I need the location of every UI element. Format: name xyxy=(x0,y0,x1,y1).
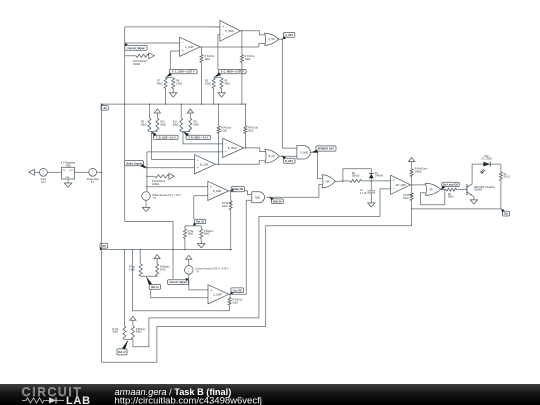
svg-text:R Top: R Top xyxy=(188,231,195,233)
svg-text:Curr OK: Curr OK xyxy=(233,290,242,292)
wire R7 to +5V rail xyxy=(165,89,167,105)
wire RefL2 bottom tie xyxy=(141,275,158,277)
svg-text:+: + xyxy=(182,49,184,53)
svg-text:OR: OR xyxy=(429,188,433,191)
net label AND OK xyxy=(271,199,283,204)
wire V_B_LOW to B_LOW - input xyxy=(152,132,195,160)
wire C_HIGH out to C_OK input a xyxy=(240,31,264,35)
OR gate B_OK xyxy=(265,150,279,164)
svg-text:C_HIGH: C_HIGH xyxy=(225,30,234,33)
svg-text:R12: R12 xyxy=(193,122,198,124)
wire B_CMP out to AND input a xyxy=(229,191,252,195)
net label V_C_HIGH xyxy=(218,69,246,73)
node flag right (brake pulldown) xyxy=(169,173,175,179)
svg-text:Brake_Signal: Brake_Signal xyxy=(126,162,141,165)
wire LED to R1 xyxy=(490,163,501,165)
ground (C divider2) xyxy=(218,93,225,97)
junction rail1 x=218.6 xyxy=(218,103,220,105)
wire V_C_LOW node riser xyxy=(169,51,171,69)
wire power rail to +5V bus xyxy=(97,171,102,173)
svg-text:GND: GND xyxy=(65,177,70,179)
resistor R Top 4.8k (RefL2) xyxy=(139,264,142,277)
svg-text:10kΩ: 10kΩ xyxy=(205,59,211,61)
svg-text:+: + xyxy=(222,25,224,29)
wire C_HIGH - stub xyxy=(218,34,220,36)
svg-text:8.2kΩ: 8.2kΩ xyxy=(176,83,182,85)
svg-text:Set Latch OK: Set Latch OK xyxy=(443,184,458,187)
junction B_OK out xyxy=(281,155,283,157)
wire brake sensor riser x=146.9 xyxy=(146,152,148,192)
junction C_HIGH out xyxy=(241,30,243,32)
svg-text:−: − xyxy=(210,296,212,300)
op-amp C_CMP comparator xyxy=(208,285,229,304)
net label Ref L2 xyxy=(149,284,160,289)
junction B_CMP out xyxy=(230,190,232,192)
svg-text:100kΩ: 100kΩ xyxy=(152,183,159,186)
svg-text:Current Sensor 0.25 V - 4.75 V: Current Sensor 0.25 V - 4.75 V xyxy=(196,268,229,271)
junction C_LOW out/pullup xyxy=(201,46,203,48)
svg-text:R Pull Up: R Pull Up xyxy=(205,56,215,58)
svg-text:90kΩ: 90kΩ xyxy=(225,83,231,85)
svg-text:Ref L2: Ref L2 xyxy=(151,286,159,289)
svg-text:+: + xyxy=(210,289,212,293)
svg-text:R Bottom: R Bottom xyxy=(160,266,170,269)
junction rail1 x=241.9 xyxy=(241,103,243,105)
ground (Q1 emitter) xyxy=(470,200,477,204)
resistor R9 90k (V_B_LOW) xyxy=(148,118,151,131)
wire to C_LOW - input xyxy=(125,42,180,44)
wire C_CMP out up to AND input b xyxy=(229,200,252,294)
resistor R Pull Up 10k (RC) xyxy=(410,193,413,201)
svg-text:RC_CMP: RC_CMP xyxy=(396,184,407,187)
op-amp B_HIGH comparator xyxy=(223,138,244,157)
LED D2 xyxy=(483,162,490,167)
svg-text:2N3904: 2N3904 xyxy=(474,190,483,192)
svg-text:B_OK?: B_OK? xyxy=(285,160,294,163)
net label Brake OK xyxy=(231,187,244,192)
wire rail to B divider1 xyxy=(148,104,150,118)
wire brake signal to B_CMP + input xyxy=(147,186,208,188)
node flag right (current pulldown) xyxy=(149,53,155,59)
svg-text:Ref L3: Ref L3 xyxy=(118,351,126,354)
net label +5V (rail1) xyxy=(101,106,108,111)
wire arrow to R Bottom (RefL2) xyxy=(156,260,158,264)
svg-text:C_LOW: C_LOW xyxy=(185,46,194,49)
ground (C1) xyxy=(368,203,375,207)
junction rail2 x=124.4 xyxy=(124,249,126,251)
resistor R Bottom 57k (RefL2) xyxy=(156,264,159,277)
resistor R Top 90k (RefU1) xyxy=(183,229,186,239)
wire pullup to B_LOW out xyxy=(218,134,220,165)
wire pullup to B_HIGH out xyxy=(244,134,246,148)
svg-text:R Bottom: R Bottom xyxy=(204,230,214,233)
wire C_HIGH out down (crosses y=47) xyxy=(241,31,243,55)
svg-text:90kΩ: 90kΩ xyxy=(157,83,163,85)
wire regulator GND xyxy=(67,179,69,183)
svg-text:R Bottom: R Bottom xyxy=(136,328,146,331)
transistor Q1 NPN 2N3904 xyxy=(466,184,468,195)
svg-text:Current_Signal: Current_Signal xyxy=(169,281,186,284)
resistor R Pull Up 10k (C_CMP) xyxy=(228,298,231,306)
svg-text:R Pull Up: R Pull Up xyxy=(221,127,231,129)
junction B_LOW out xyxy=(218,164,220,166)
svg-text:4.7 µF: 4.7 µF xyxy=(360,193,367,195)
wire to brake pulldown xyxy=(147,175,155,177)
wire to R pull down (current) xyxy=(125,55,136,57)
svg-text:90kΩ: 90kΩ xyxy=(141,124,147,126)
net label +5V (rail2) xyxy=(100,243,108,248)
resistor R Pull Up 10k (C_HIGH) xyxy=(240,55,243,63)
svg-text:8.2kΩ: 8.2kΩ xyxy=(205,83,211,85)
resistor R5 8.2k (V_C_HIGH) xyxy=(212,78,215,89)
resistor R Pull Up 10k (B_HIGH) xyxy=(244,126,247,134)
wire SENSOR_OK to OR input a xyxy=(318,152,322,178)
junction OR out / R3 xyxy=(342,180,344,182)
wire to R3 xyxy=(343,180,350,182)
resistor R1 500 xyxy=(499,172,502,181)
junction SENSOR_OK xyxy=(317,152,319,154)
wire C_CMP out to pullup xyxy=(229,294,231,297)
wire node to C1 xyxy=(370,181,372,191)
wire C divider1 top tie xyxy=(166,76,174,78)
resistor R Pull Up 10k (B_LOW) xyxy=(217,126,220,134)
junction rail2 x=173.0 xyxy=(172,249,174,251)
wire R pulldown to RC out xyxy=(411,177,413,185)
wire pullup to rail xyxy=(241,63,243,105)
wire B_CMP pullup to rail2 xyxy=(230,210,232,250)
AND gate S_AND xyxy=(297,146,310,159)
capacitor C1 4.7uF xyxy=(367,190,375,192)
wire V_B_HIGH to B_HIGH - input xyxy=(183,132,223,144)
svg-text:Out: Out xyxy=(504,213,508,216)
resistor R Pull Down (current) 100k xyxy=(136,54,149,57)
resistor R Top 90k (RefL3) xyxy=(123,326,126,339)
svg-text:C_OK: C_OK xyxy=(268,38,275,41)
resistor R Bottom 90k (RefU1) xyxy=(200,229,203,239)
wire emitter to ground xyxy=(472,195,474,200)
svg-text:C_OK?: C_OK? xyxy=(285,34,294,37)
junction rail1 x=165.6 xyxy=(165,103,167,105)
op-amp RC_CMP comparator xyxy=(391,175,411,194)
wire B_OK out to S_AND input b xyxy=(279,155,297,157)
regulator U2 7805 box xyxy=(62,167,75,179)
svg-text:B_CMP: B_CMP xyxy=(213,190,222,193)
source Current Sensor 0.25V-4.75V xyxy=(185,266,194,275)
wire stub xyxy=(165,76,167,79)
junction rail1 x=149.4 xyxy=(149,103,151,105)
wire top to C_HIGH + input y=26.9 xyxy=(125,26,220,28)
net label V_B_LOW xyxy=(154,135,179,139)
svg-text:+5V: +5V xyxy=(102,107,107,110)
net label Brake_Signal xyxy=(125,161,144,166)
junction rail2 x=184.9 xyxy=(184,249,186,251)
svg-text:L7L_3V5E: L7L_3V5E xyxy=(481,159,492,161)
wire C_LOW output line y=47 xyxy=(200,46,259,48)
wire C_OK down to S_AND input a xyxy=(282,39,297,148)
wire C divider2 top tie xyxy=(214,76,222,78)
OR gate (sensor/and combine) xyxy=(322,175,335,188)
wire latch OR output xyxy=(441,189,446,191)
svg-text:90kΩ: 90kΩ xyxy=(113,332,119,334)
junction RC pullup/output line xyxy=(411,208,413,210)
svg-text:R Pull Up: R Pull Up xyxy=(403,195,413,197)
svg-text:V_C_HIGH = 0.757 V: V_C_HIGH = 0.757 V xyxy=(221,71,244,74)
wire brake signal to B_HIGH + input xyxy=(147,151,223,153)
svg-text:Brake OK: Brake OK xyxy=(233,189,244,191)
wire RefU1 to B_CMP - input xyxy=(194,195,208,197)
svg-text:S_AND: S_AND xyxy=(300,151,308,154)
wire R8 to ground xyxy=(172,89,174,93)
net label Ref U1 xyxy=(195,219,206,223)
input node flag (left arrow) xyxy=(29,169,35,175)
wire pullup down xyxy=(229,305,231,311)
svg-text:10kΩ: 10kΩ xyxy=(222,206,228,208)
svg-text:+: + xyxy=(197,166,199,170)
wire RC out to pullup xyxy=(411,185,413,193)
wire Current/Brake left bus x=124.7 down and jog to x=173 xyxy=(125,27,173,279)
svg-text:10kΩ: 10kΩ xyxy=(232,302,238,304)
junction rail1 x=201.5 xyxy=(201,103,203,105)
svg-text:1N4148: 1N4148 xyxy=(375,176,384,178)
svg-text:http://circuitlab.com/c43498w6: http://circuitlab.com/c43498w6vecfj xyxy=(115,395,262,405)
svg-text:R Pull Up: R Pull Up xyxy=(232,300,242,302)
svg-text:10kΩ: 10kΩ xyxy=(245,59,251,61)
svg-text:V_C_LOW = 0.257 V: V_C_LOW = 0.257 V xyxy=(172,71,195,74)
net label Ref L3 xyxy=(117,349,127,355)
svg-text:V_B_LOW = 0.2 V: V_B_LOW = 0.2 V xyxy=(156,136,176,139)
svg-text:−: − xyxy=(182,41,184,45)
svg-text:V_B_HIGH = 4.3 V: V_B_HIGH = 4.3 V xyxy=(188,136,209,139)
wire V1 to regulator xyxy=(47,171,61,173)
wire to C_LOW + input xyxy=(170,50,179,52)
resistor R Bottom 90k (RefL3) xyxy=(131,326,134,339)
op-amp C_LOW comparator xyxy=(180,37,201,56)
resistor R7 90k (V_C_LOW top) xyxy=(164,78,167,89)
wire rail to B divider2 xyxy=(180,104,182,118)
svg-text:100kΩ: 100kΩ xyxy=(133,63,140,66)
wire R5 to rail xyxy=(213,89,215,105)
wire C1 to ground xyxy=(370,193,372,203)
svg-text:90kΩ: 90kΩ xyxy=(173,124,179,126)
wire +5V bus bottom run to latch pulldown (inner loop) xyxy=(102,226,412,363)
ground (C divider1) xyxy=(170,93,177,97)
junction brake pulldown xyxy=(146,176,148,178)
resistor R Pull Down 100k (RC) xyxy=(410,169,413,177)
svg-text:LED: LED xyxy=(484,156,489,158)
resistor R10 90k (V_B_LOW) xyxy=(156,118,159,131)
svg-text:90kΩ: 90kΩ xyxy=(136,332,142,334)
op-amp B_LOW comparator xyxy=(195,155,216,174)
svg-text:R Pull Down: R Pull Down xyxy=(415,169,428,171)
resistor R Pull Down 100k (brake) xyxy=(155,175,169,178)
svg-text:+: + xyxy=(210,185,212,189)
net label Set Latch OK xyxy=(442,182,459,186)
svg-text:−: − xyxy=(222,33,224,37)
svg-text:R11: R11 xyxy=(173,122,178,124)
wire C_LOW out to pullup xyxy=(201,47,203,55)
svg-text:5 V: 5 V xyxy=(91,181,95,184)
junction bus/power xyxy=(101,172,103,174)
wire latch feedback loop to OR input b xyxy=(421,190,445,205)
svg-text:C_CMP: C_CMP xyxy=(213,293,222,296)
wire collector up to LED xyxy=(472,164,483,184)
wire RC_CMP out to latch OR input a xyxy=(410,184,425,186)
node arrow flag (RC pulldown) xyxy=(409,158,415,162)
wire arrow to R pulldown xyxy=(411,162,413,169)
wire rail2 to RefL3 R Top xyxy=(123,250,125,326)
wire RefL3 bottom tie xyxy=(124,338,132,340)
resistor R12 (V_B_HIGH) xyxy=(189,118,192,131)
svg-text:10kΩ: 10kΩ xyxy=(403,198,409,200)
svg-text:R Top: R Top xyxy=(113,329,120,331)
svg-text:OR: OR xyxy=(326,180,330,183)
resistor R8 8.2k (V_C_LOW bottom) xyxy=(172,78,175,89)
wire pullup to rail xyxy=(201,63,203,105)
junction B_HIGH out xyxy=(245,147,247,149)
wire rail to B_HIGH pullup xyxy=(244,104,246,126)
svg-text:+: + xyxy=(225,150,227,154)
junction rail2 x=101.5 xyxy=(101,249,103,251)
logo resistor + diode glyph xyxy=(22,398,49,403)
junction AND out xyxy=(269,197,271,199)
wire B divider2 bottom tie xyxy=(181,131,190,133)
svg-text:10kΩ: 10kΩ xyxy=(248,130,254,132)
svg-text:7805: 7805 xyxy=(65,165,71,168)
svg-text:SENSOR_OK?: SENSOR_OK? xyxy=(318,148,335,151)
net label Current_Signal (bottom) xyxy=(168,280,189,285)
source/meter Power Rail 5V xyxy=(89,168,97,176)
svg-text:R10: R10 xyxy=(160,122,165,124)
junction latch feedback xyxy=(444,189,446,191)
junction brake/B_LOW+ xyxy=(146,167,148,169)
junction rail1 x=181.2 xyxy=(180,103,182,105)
svg-text:500 Ω: 500 Ω xyxy=(504,177,510,179)
+5V arrow flag (B divider1) xyxy=(154,109,160,113)
wire +5V rail 2 y=249.6 xyxy=(100,249,232,251)
wire bypass over R3 to D1 cathode xyxy=(343,169,371,181)
svg-text:−: − xyxy=(210,193,212,197)
svg-text:90kΩ: 90kΩ xyxy=(204,234,210,236)
wire rail2 to RefL2 R Top xyxy=(139,250,141,264)
wire OR output to RC network xyxy=(335,180,343,182)
wire B divider1 bottom tie xyxy=(149,131,157,133)
junction C_OK out xyxy=(282,38,284,40)
wire D1 anode to node xyxy=(370,178,372,181)
net label SENSOR_OK? xyxy=(316,146,336,151)
+5V arrow flag (current sensor) xyxy=(186,255,192,259)
wire brake sensor to ground xyxy=(145,200,147,207)
svg-text:500 kΩ: 500 kΩ xyxy=(352,176,360,178)
wire C_LOW out to C_OK input b xyxy=(259,44,265,48)
diode D1 1N4148 xyxy=(369,174,374,178)
svg-text:LED NPN Transistor: LED NPN Transistor xyxy=(474,186,495,189)
net label V_C_LOW xyxy=(169,69,197,73)
svg-text:R Pull Up: R Pull Up xyxy=(248,127,258,129)
source Brake Sensor 0.5V-4.5V xyxy=(142,192,151,201)
wire stub RefU1 right xyxy=(200,226,202,229)
svg-text:100kΩ: 100kΩ xyxy=(415,171,422,173)
svg-text:−: − xyxy=(393,187,395,191)
resistor R Pull Up 10k (B_CMP) xyxy=(229,201,232,210)
junction rail1 x=124.7 xyxy=(124,103,126,105)
AND gate (brake and current) xyxy=(252,192,265,203)
resistor R Pull Up 10k (C_LOW) xyxy=(200,55,203,63)
svg-text:AND OK: AND OK xyxy=(273,200,282,203)
junction rail2 x=140.2 xyxy=(139,249,141,251)
junction C_CMP out xyxy=(229,294,231,296)
svg-text:? V: ? V xyxy=(153,197,157,200)
wire C_HIGH + stub xyxy=(215,26,220,28)
+5V arrow flag (B divider2) xyxy=(187,109,193,113)
wire S_AND output xyxy=(310,151,317,153)
net label C_OK? xyxy=(284,32,295,37)
net label Current_Signal (top) xyxy=(125,45,147,50)
svg-text:+: + xyxy=(393,179,395,183)
svg-text:10kΩ: 10kΩ xyxy=(221,130,227,132)
svg-text:90kΩ: 90kΩ xyxy=(193,124,199,126)
wire R3 to RC_CMP + input xyxy=(362,180,391,182)
svg-text:LAB: LAB xyxy=(66,395,91,405)
wire brake signal to B_LOW + input xyxy=(143,167,194,169)
ground (RefU1) xyxy=(198,244,205,248)
wire rail to B_LOW pullup xyxy=(218,104,220,126)
wire C_OK output xyxy=(279,38,283,40)
resistor R6 90k (V_C_HIGH) xyxy=(220,78,223,89)
junction brake/B_CMP+ xyxy=(146,186,148,188)
wire RefL2 to C_CMP - input xyxy=(151,289,208,298)
op-amp C_HIGH comparator xyxy=(220,21,241,42)
junction rail2 x=230.7 xyxy=(230,249,232,251)
wire +5V rail 1 y=104.1 xyxy=(101,103,246,105)
svg-text:+5V: +5V xyxy=(102,245,107,248)
svg-text:R Pull Up: R Pull Up xyxy=(245,56,255,58)
wire R2 to Q1 base xyxy=(457,189,467,191)
wire outer loop up to RC_CMP - input xyxy=(380,189,391,217)
wire RefL3 long feedback to RC_CMP - (outer loop) xyxy=(133,217,380,347)
junction R3/D1/C1 xyxy=(371,180,373,182)
wire AND output to OR input xyxy=(266,196,319,198)
svg-text:−: − xyxy=(225,142,227,146)
svg-text:57kΩ: 57kΩ xyxy=(160,269,166,271)
+5V arrow flag (RefL2) xyxy=(154,255,160,259)
svg-text:90kΩ: 90kΩ xyxy=(448,197,454,199)
wire regulator to power rail meter xyxy=(75,171,89,173)
junction crossing pullup/C_LOW line xyxy=(241,46,243,48)
svg-text:90kΩ: 90kΩ xyxy=(188,234,194,236)
wire RC pullup down to inner loop xyxy=(411,201,413,226)
wire B_CMP out to pullup xyxy=(230,191,232,201)
wire R6 to ground xyxy=(221,89,223,93)
svg-text:12 V: 12 V xyxy=(41,181,46,184)
wire to R1 top xyxy=(500,164,502,172)
junction bus/rail1 xyxy=(101,103,103,105)
svg-text:Brake Sensor 0.5 V - 4.5 V: Brake Sensor 0.5 V - 4.5 V xyxy=(153,194,182,197)
resistor R2 90k xyxy=(446,188,457,191)
svg-text:? V: ? V xyxy=(196,271,200,274)
net label Curr OK xyxy=(231,288,244,293)
wire +5V bus x=101.5 xyxy=(101,104,103,362)
svg-text:Ref U1: Ref U1 xyxy=(196,221,204,224)
wire RefU1 divider top tie xyxy=(185,225,201,227)
junction rail2 x=132.4 xyxy=(132,249,134,251)
wire R1 down and left to RC pullup junction xyxy=(412,180,501,209)
wire AND_OK to OR input b xyxy=(319,185,322,198)
resistor R11 (V_B_HIGH) xyxy=(180,118,183,131)
wire RefU1 R Top to rail2 xyxy=(184,238,186,249)
ground (brake sensor) xyxy=(142,207,149,211)
wire RefU1 R Bottom to ground xyxy=(200,238,202,243)
junction rail1 x=213.7 xyxy=(213,103,215,105)
